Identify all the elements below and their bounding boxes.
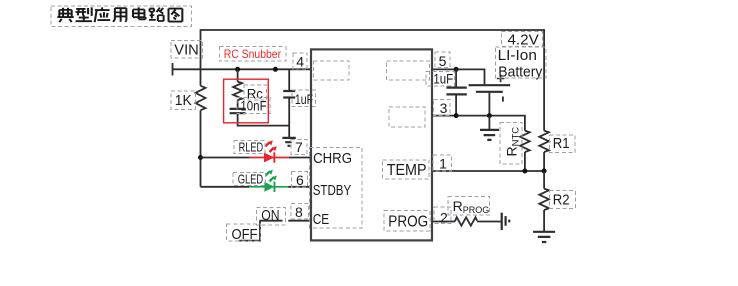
- svg-text:2: 2: [440, 209, 448, 225]
- battery minus sign: [502, 97, 504, 102]
- svg-text:3: 3: [440, 100, 448, 116]
- capacitor 1uF battery: [455, 69, 457, 87]
- LED RLED: [264, 140, 277, 162]
- svg-text:5: 5: [439, 53, 447, 69]
- svg-text:CE: CE: [313, 212, 330, 228]
- ground input cap: [282, 138, 295, 146]
- node snubber top: [235, 67, 240, 72]
- resistor RNTC: [520, 131, 530, 171]
- resistor R2: [539, 171, 549, 232]
- wire pin 5 to battery: [432, 69, 485, 85]
- svg-text:LI-Ion: LI-Ion: [498, 47, 537, 64]
- wire STDBY row: [201, 186, 250, 188]
- svg-text:PROG: PROG: [388, 213, 428, 230]
- IC empty label box mid-right: [389, 107, 425, 127]
- svg-text:CHRG: CHRG: [313, 151, 352, 167]
- resistor RPROG: [455, 217, 477, 225]
- svg-text:OFF: OFF: [232, 226, 258, 243]
- resistor Rc: [233, 69, 242, 109]
- svg-text:R2: R2: [553, 191, 570, 208]
- VIN terminal tick: [172, 63, 174, 76]
- svg-text:R1: R1: [553, 135, 570, 152]
- svg-text:1uF: 1uF: [433, 71, 453, 87]
- switch ON position wire: [239, 221, 282, 241]
- svg-text:GLED: GLED: [238, 172, 264, 187]
- node vin-cap: [273, 67, 278, 72]
- node cap gnd: [454, 113, 459, 118]
- svg-text:1K: 1K: [175, 92, 192, 109]
- wire VIN to pin 4: [173, 68, 312, 70]
- svg-text:7: 7: [295, 139, 303, 155]
- IC empty label box top-right: [387, 61, 430, 80]
- node bat cap: [454, 67, 459, 72]
- title 典型应用电路图 (hand-drawn CJK strokes): [57, 7, 182, 22]
- wire snubber bottom: [238, 113, 290, 125]
- svg-text:TEMP: TEMP: [387, 162, 427, 179]
- svg-text:RC Snubber: RC Snubber: [224, 47, 281, 61]
- svg-text:RLED: RLED: [239, 140, 264, 155]
- svg-text:4.2V: 4.2V: [508, 31, 539, 48]
- resistor 1K: [196, 70, 206, 110]
- red snubber box: [224, 79, 269, 123]
- svg-text:10nF: 10nF: [240, 98, 266, 114]
- label RNTC: [504, 127, 522, 157]
- battery BT1: [469, 84, 511, 86]
- node ntc temp: [522, 169, 527, 174]
- capacitor 1uF input: [288, 69, 290, 91]
- ground R2: [533, 232, 555, 242]
- node bat gnd: [487, 113, 492, 118]
- wire CE stub: [288, 220, 311, 222]
- op-amp U1 IC body: [311, 49, 432, 240]
- wire pin 2 PROG: [432, 221, 455, 223]
- battery plus sign: [497, 75, 505, 83]
- svg-text:1: 1: [439, 156, 447, 172]
- title dashed box: [51, 6, 192, 27]
- resistor R1: [539, 131, 549, 171]
- wire left bus down to LED rows: [200, 110, 202, 187]
- wire top rail: [201, 30, 545, 131]
- svg-text:4: 4: [296, 53, 304, 69]
- ground battery: [488, 116, 490, 130]
- svg-text:VIN: VIN: [174, 41, 199, 58]
- capacitor 10nF: [230, 109, 246, 113]
- wire pin 1 TEMP: [432, 170, 544, 172]
- wire CHRG row: [201, 157, 250, 159]
- svg-text:STDBY: STDBY: [313, 183, 352, 199]
- node divider: [542, 169, 547, 174]
- node LED bus: [198, 155, 203, 160]
- svg-text:6: 6: [296, 172, 304, 188]
- IC empty label box top-left: [314, 61, 350, 80]
- svg-text:8: 8: [295, 204, 303, 220]
- wire pin 3 ground rail: [432, 116, 525, 131]
- ground PROG sideways: [502, 213, 510, 230]
- svg-text:ON: ON: [261, 207, 279, 224]
- LED GLED: [264, 170, 276, 192]
